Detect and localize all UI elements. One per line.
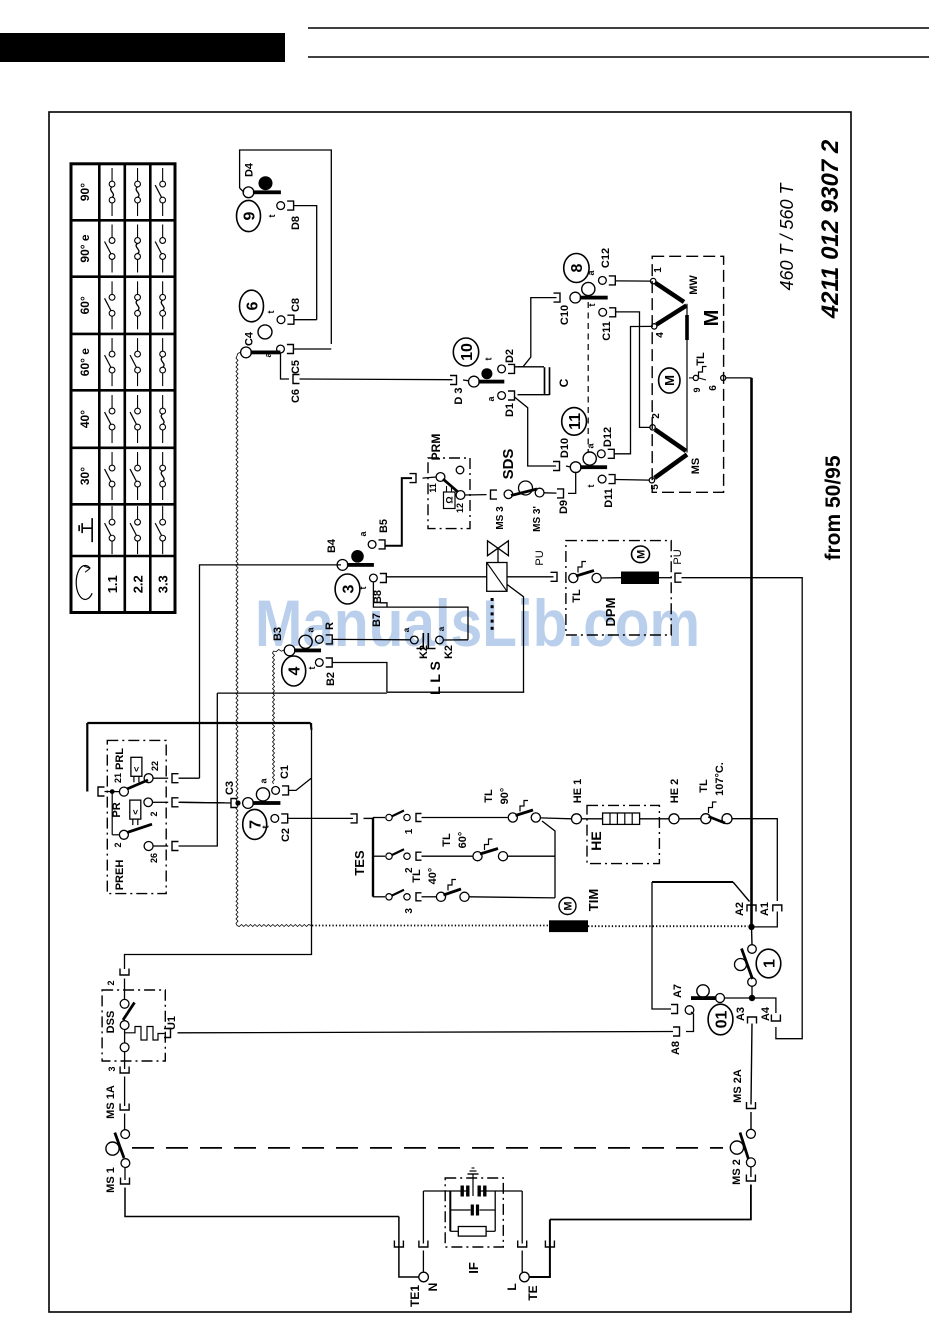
svg-text:TE1: TE1 bbox=[408, 1285, 422, 1307]
svg-text:60°: 60° bbox=[457, 832, 469, 849]
svg-text:D 3: D 3 bbox=[453, 387, 465, 404]
svg-text:C10: C10 bbox=[559, 305, 571, 325]
svg-text:MS 1: MS 1 bbox=[105, 1167, 117, 1193]
svg-text:MS 2: MS 2 bbox=[731, 1159, 743, 1185]
svg-text:PRL: PRL bbox=[114, 748, 126, 770]
cam linkage zigzag vertical B3 to C1 bbox=[273, 651, 275, 784]
svg-text:L L S: L L S bbox=[427, 661, 443, 695]
svg-text:C12: C12 bbox=[600, 248, 612, 268]
pin bracket D9 bbox=[557, 489, 564, 498]
switch 1 on rail bbox=[748, 945, 757, 954]
pin bracket C6 bbox=[293, 375, 300, 384]
timer linkage dotted right bbox=[588, 925, 748, 927]
pin bracket MS1A top bbox=[120, 1067, 129, 1074]
cam contact C4 (cam 6) bbox=[241, 347, 252, 358]
svg-text:Ω: Ω bbox=[445, 496, 455, 503]
TES switch 1 bbox=[373, 817, 385, 819]
pin C2 bbox=[271, 815, 279, 823]
wire PRL 22 out bbox=[153, 777, 168, 779]
svg-text:TL: TL bbox=[411, 869, 423, 883]
pin bracket A3 bbox=[748, 1017, 757, 1024]
pin bracket C3 bbox=[231, 799, 238, 808]
svg-text:U1: U1 bbox=[166, 1016, 178, 1030]
wire TES1 to TL90 bbox=[422, 817, 508, 819]
junction dot C3 node bbox=[235, 800, 240, 805]
wire PR node down bbox=[111, 792, 113, 835]
svg-text:C5: C5 bbox=[290, 360, 302, 374]
main phase rail thick bbox=[750, 378, 753, 927]
TL 60 switch bbox=[473, 852, 482, 861]
svg-text:M: M bbox=[701, 310, 723, 327]
junction dot A3 node bbox=[749, 995, 755, 1001]
svg-text:MS 2A: MS 2A bbox=[732, 1069, 744, 1103]
IF earth symbol bbox=[472, 1174, 474, 1187]
pin bracket L bbox=[518, 1241, 527, 1248]
wire A8 to A7 mate bbox=[686, 1012, 694, 1032]
svg-text:B7: B7 bbox=[371, 613, 383, 627]
motor TL klixon bbox=[693, 375, 698, 380]
svg-text:A3: A3 bbox=[735, 1007, 747, 1021]
cam number 3 bbox=[335, 574, 360, 604]
svg-text:6: 6 bbox=[244, 301, 261, 310]
svg-text:MS 1A: MS 1A bbox=[105, 1085, 117, 1119]
pin bracket A4 bbox=[771, 1015, 780, 1022]
svg-text:C8: C8 bbox=[290, 298, 302, 312]
cam number 6 bbox=[240, 290, 264, 322]
wire C5 down to C6 bbox=[281, 353, 290, 379]
svg-text:C6: C6 bbox=[290, 389, 302, 403]
DSS to MS1A wire bbox=[124, 1052, 126, 1069]
valve wire through bbox=[507, 576, 554, 578]
wire 26 up to B2 line bbox=[179, 693, 218, 846]
wire HE2 to TL107 bbox=[679, 818, 701, 820]
svg-text:PRM: PRM bbox=[429, 434, 443, 461]
svg-text:t: t bbox=[267, 215, 277, 218]
TL 107 switch bbox=[701, 814, 711, 824]
MW terminal 1 bbox=[651, 278, 656, 283]
cam number 11 bbox=[562, 408, 587, 436]
pin D11 bbox=[598, 475, 606, 483]
TL90 bypass down bbox=[542, 821, 555, 898]
wire K2 right to riser bbox=[443, 639, 468, 641]
cam linkage zigzag C4 to timer bbox=[237, 352, 240, 356]
pin B8 bbox=[370, 574, 378, 582]
svg-text:C4: C4 bbox=[244, 331, 256, 346]
pin bracket TES in bbox=[351, 814, 358, 823]
terminal L circle bbox=[520, 1272, 530, 1282]
svg-text:A7: A7 bbox=[672, 984, 684, 998]
TIM coil bbox=[549, 920, 588, 932]
svg-text:D8: D8 bbox=[290, 216, 302, 230]
L wire down from IF bbox=[521, 1191, 523, 1244]
wire D10 to D9 bbox=[568, 472, 576, 494]
wire HE2 side loop bbox=[652, 881, 733, 883]
cam contact C3 (cam 7) bbox=[243, 798, 254, 809]
svg-text:MW: MW bbox=[688, 275, 700, 295]
svg-text:B5: B5 bbox=[378, 519, 390, 533]
svg-text:t: t bbox=[266, 311, 276, 314]
svg-text:40°: 40° bbox=[78, 410, 92, 428]
MS2A wire and circle bbox=[750, 1112, 752, 1129]
svg-text:TIM: TIM bbox=[586, 889, 601, 911]
K2 left terminal bbox=[410, 636, 418, 644]
pin bracket 22 bbox=[172, 774, 179, 783]
svg-text:8: 8 bbox=[569, 263, 586, 272]
svg-text:4: 4 bbox=[655, 332, 666, 338]
wire HE to HE2 bbox=[640, 818, 669, 820]
MS winding arm lower bbox=[655, 455, 688, 479]
table switch symbols bbox=[111, 168, 113, 181]
pin D8 bbox=[277, 202, 285, 210]
svg-text:90°: 90° bbox=[78, 183, 92, 201]
PRM box bbox=[428, 458, 470, 529]
MS terminal 2 bbox=[650, 425, 655, 430]
svg-text:L: L bbox=[505, 1283, 519, 1290]
svg-text:30°: 30° bbox=[78, 467, 92, 485]
K2 right terminal bbox=[436, 636, 444, 644]
svg-text:HE 2: HE 2 bbox=[669, 779, 681, 803]
PR PRL PREH box bbox=[107, 740, 166, 893]
pin D1 bbox=[498, 392, 506, 400]
svg-text:2: 2 bbox=[113, 842, 123, 847]
svg-text:MS: MS bbox=[690, 458, 702, 475]
svg-text:2.2: 2.2 bbox=[131, 575, 146, 593]
cam contact B4 (cam 3) bbox=[337, 560, 348, 571]
svg-text:IF: IF bbox=[466, 1262, 481, 1274]
cam number 01 bbox=[708, 1004, 733, 1035]
svg-text:C1: C1 bbox=[279, 765, 291, 779]
wire A8 to U1 bbox=[178, 1032, 674, 1033]
DSS switch bbox=[124, 979, 126, 1000]
pin bracket DSS 2 bbox=[120, 969, 129, 976]
table tap icon bbox=[79, 518, 92, 542]
svg-text:a: a bbox=[402, 627, 411, 632]
MS2 blade bbox=[740, 1133, 748, 1159]
cam contact B3 (cam 4) bbox=[284, 645, 295, 656]
pin bracket U1 bbox=[164, 1029, 171, 1038]
pin bracket A8 bbox=[673, 1027, 680, 1036]
svg-text:PU: PU bbox=[672, 549, 684, 564]
wire top loop D4-C5 bbox=[240, 150, 332, 344]
wire C1 diagonal to rail bbox=[289, 778, 312, 790]
svg-text:460 T / 560 T: 460 T / 560 T bbox=[777, 181, 797, 290]
wire C12 to MW1 bbox=[615, 280, 650, 282]
svg-text:TL: TL bbox=[698, 779, 710, 793]
pin D12 bbox=[597, 450, 605, 458]
pin bracket C10 bbox=[554, 293, 561, 302]
MW winding arm bbox=[656, 283, 685, 302]
DPM motor M circle bbox=[632, 546, 650, 563]
terminal TE1/N circle bbox=[419, 1272, 429, 1282]
pin bracket PRM 11 bbox=[410, 474, 417, 483]
svg-text:C2: C2 bbox=[280, 828, 292, 842]
pin R bbox=[315, 636, 323, 644]
IF box bbox=[445, 1178, 503, 1247]
svg-text:TL: TL bbox=[571, 589, 583, 603]
motor box bbox=[652, 256, 723, 492]
junction dot A2 node bbox=[748, 924, 754, 930]
svg-text:TE: TE bbox=[526, 1285, 540, 1300]
svg-text:a: a bbox=[437, 626, 446, 631]
svg-text:A8: A8 bbox=[670, 1041, 682, 1055]
svg-text:HE: HE bbox=[588, 831, 604, 850]
svg-text:ManualsLib.com: ManualsLib.com bbox=[255, 586, 700, 660]
svg-text:3.3: 3.3 bbox=[156, 575, 171, 593]
MS2 lower circle bbox=[746, 1158, 755, 1167]
pin bracket N rail bbox=[394, 1241, 403, 1248]
svg-text:10: 10 bbox=[459, 343, 476, 361]
wire B8 down to B7 line bbox=[373, 583, 468, 640]
dashed phase boundary line bbox=[132, 1147, 723, 1149]
cam number 9 bbox=[237, 200, 261, 231]
SDS hex cam bbox=[519, 481, 533, 495]
header rule line 2 bbox=[308, 56, 929, 58]
PREH switch bbox=[119, 830, 128, 839]
wire 12 to SDS bbox=[465, 494, 487, 496]
timer linkage dotted left bbox=[237, 925, 311, 927]
PRM idle contact bbox=[456, 466, 464, 474]
pin C8 bbox=[277, 316, 285, 324]
svg-text:01: 01 bbox=[713, 1011, 730, 1029]
valve coil box bbox=[487, 563, 507, 592]
svg-text:11: 11 bbox=[567, 413, 584, 430]
cam number 1 bbox=[756, 949, 781, 978]
svg-text:1: 1 bbox=[653, 267, 664, 273]
svg-text:t: t bbox=[307, 667, 317, 670]
pin bracket MS1A bottom bbox=[120, 1104, 129, 1111]
pin bracket A2 bbox=[747, 905, 756, 912]
svg-text:PR: PR bbox=[111, 802, 123, 817]
wire C6 to D3 bbox=[300, 378, 453, 381]
pin bracket MS2A bbox=[747, 1102, 756, 1109]
svg-text:3: 3 bbox=[404, 908, 415, 914]
svg-text:A4: A4 bbox=[760, 1006, 772, 1021]
svg-text:D4: D4 bbox=[244, 162, 256, 177]
HE2 terminal bbox=[669, 814, 679, 824]
rotor winding bar bbox=[685, 315, 689, 340]
rail C-row down to DSS feed bbox=[125, 723, 312, 969]
wire B2 to valve return bbox=[332, 663, 387, 693]
TIM motor circle bbox=[559, 898, 576, 915]
svg-text:K2: K2 bbox=[443, 645, 455, 659]
wire TES2 to TL60 bbox=[422, 855, 474, 857]
wire R to K2 bbox=[332, 638, 410, 640]
valve linkage dots bbox=[491, 598, 494, 601]
svg-text:t: t bbox=[484, 358, 494, 361]
rotor common wire bbox=[686, 304, 688, 453]
svg-text:4: 4 bbox=[286, 666, 303, 675]
pin bracket A1 bbox=[773, 905, 782, 912]
MS1 lower circle bbox=[121, 1159, 130, 1168]
IF inner verticals bbox=[449, 1191, 451, 1231]
cam number 8 bbox=[564, 254, 589, 283]
wire TL90 to HE1 bbox=[540, 817, 571, 820]
wire MS1A bbox=[124, 1077, 126, 1107]
header rule line 1 bbox=[308, 27, 929, 29]
pin bracket D3 bbox=[450, 376, 457, 385]
pin bracket D9wire-D10 bbox=[553, 462, 560, 471]
cam number 7 bbox=[243, 809, 267, 839]
svg-text:26: 26 bbox=[149, 853, 159, 863]
svg-text:D9: D9 bbox=[558, 500, 570, 514]
svg-text:90°: 90° bbox=[499, 788, 511, 805]
wire A1 down to dot bbox=[754, 912, 777, 927]
DPM winding bbox=[601, 577, 621, 579]
svg-text:D1: D1 bbox=[504, 403, 516, 417]
wire TL40 out bbox=[469, 897, 555, 898]
pin bracket L rail bbox=[545, 1241, 554, 1248]
svg-text:MS 3: MS 3 bbox=[495, 506, 506, 530]
svg-text:DSS: DSS bbox=[105, 1011, 117, 1034]
svg-text:M: M bbox=[636, 550, 648, 559]
cam contact D10 (cam 11) bbox=[566, 466, 571, 467]
pin C5 bbox=[277, 345, 285, 353]
svg-text:D2: D2 bbox=[504, 349, 516, 363]
MS1A switch circle bbox=[124, 1114, 126, 1130]
pin bracket SDS bbox=[491, 490, 498, 499]
valve return diagonal bbox=[507, 584, 524, 692]
wire B4 rail bbox=[200, 565, 342, 778]
wire DPM out bbox=[659, 577, 672, 579]
svg-text:t: t bbox=[358, 587, 368, 590]
svg-text:12: 12 bbox=[455, 503, 465, 513]
svg-text:11: 11 bbox=[428, 483, 438, 493]
HE1 terminal bbox=[572, 814, 582, 824]
wire D12 to MW4 bbox=[614, 326, 652, 453]
DPM box bbox=[566, 541, 671, 635]
dashed cam linkage 8-11 bbox=[587, 302, 589, 453]
pin bracket PR 21 bbox=[98, 787, 105, 796]
bottom rail to N bbox=[399, 1217, 419, 1278]
pin bracket N bbox=[419, 1241, 428, 1248]
TES common bar bbox=[364, 817, 374, 819]
svg-text:PU: PU bbox=[534, 550, 546, 565]
svg-text:A2: A2 bbox=[734, 902, 746, 916]
PR mid contact to C3 bbox=[144, 798, 153, 807]
IF series capacitors bbox=[461, 1186, 464, 1197]
wire C5 to top loop bbox=[293, 348, 331, 350]
wire MS1 to bottom rail bbox=[124, 1168, 126, 1181]
svg-text:90° e: 90° e bbox=[78, 234, 92, 262]
wire C11 to MS2 terminal bbox=[616, 312, 650, 428]
rail to switch 1 bbox=[751, 927, 754, 945]
capacitor C bbox=[544, 367, 546, 395]
svg-text:5: 5 bbox=[650, 484, 661, 490]
wire to PR 21 bbox=[86, 723, 88, 792]
PRM contact 11-12 bbox=[423, 477, 437, 478]
svg-text:<: < bbox=[130, 809, 140, 814]
svg-text:3: 3 bbox=[340, 584, 357, 593]
svg-text:TL: TL bbox=[483, 789, 495, 803]
IF feed line bbox=[423, 1190, 469, 1192]
wire TL6 to main rail bbox=[726, 377, 752, 379]
cam contact D3 (cam 10) bbox=[463, 379, 469, 382]
svg-text:HE 1: HE 1 bbox=[572, 779, 584, 803]
pin bracket MS2 bottom bbox=[746, 1175, 755, 1182]
PRM ohm box bbox=[444, 492, 456, 509]
svg-text:2: 2 bbox=[651, 413, 662, 419]
wire D2 to C10 bbox=[515, 298, 557, 367]
A7 mate circle bbox=[685, 1006, 694, 1015]
IF middle capacitor bbox=[450, 1209, 470, 1211]
svg-text:M: M bbox=[662, 375, 677, 386]
capacitor C wire top bbox=[518, 366, 545, 368]
pin bracket 26 bbox=[172, 842, 179, 851]
pin C1 bbox=[272, 787, 280, 795]
MW winding arm lower bbox=[657, 306, 687, 325]
DSS box bbox=[102, 990, 165, 1061]
svg-text:C: C bbox=[557, 378, 571, 387]
svg-text:3: 3 bbox=[107, 1066, 117, 1071]
svg-text:2: 2 bbox=[149, 811, 159, 816]
cam number 4 bbox=[282, 656, 306, 686]
svg-text:PREH: PREH bbox=[114, 860, 126, 891]
svg-text:C11: C11 bbox=[601, 321, 613, 341]
DSS heater meander bbox=[125, 1027, 165, 1041]
svg-text:1.1: 1.1 bbox=[105, 575, 120, 593]
svg-text:22: 22 bbox=[150, 761, 160, 771]
wire B5 to PRM bbox=[385, 478, 412, 546]
motor rotor M circle bbox=[659, 368, 680, 393]
pin bracket B7 bbox=[380, 603, 387, 607]
MS1 hex cam bbox=[106, 1142, 119, 1155]
svg-text:1: 1 bbox=[404, 828, 415, 834]
MS winding arm bbox=[655, 430, 686, 452]
svg-text:t: t bbox=[261, 826, 271, 829]
PRL switch bbox=[119, 787, 128, 796]
pin bracket MS1 bottom bbox=[121, 1178, 130, 1185]
TL switch in DPM bbox=[569, 573, 578, 582]
PRL pressure bellows bbox=[131, 757, 142, 776]
svg-text:D10: D10 bbox=[559, 438, 571, 458]
wire TES3 to TL40 bbox=[422, 896, 437, 898]
cam contact C10 (cam 8) bbox=[570, 292, 581, 303]
HE resistor bbox=[582, 818, 603, 820]
L wire to right rail bbox=[529, 1220, 550, 1278]
N wire up to IF bbox=[422, 1251, 424, 1273]
svg-text:107°C.: 107°C. bbox=[714, 762, 726, 796]
junction dot PR node bbox=[110, 789, 115, 794]
wire C3 from PR bbox=[180, 801, 225, 804]
svg-text:21: 21 bbox=[113, 773, 123, 783]
svg-text:4211 012 9307 2: 4211 012 9307 2 bbox=[817, 139, 844, 319]
wire D11 to MS5 bbox=[615, 479, 649, 482]
MS terminal 5 bbox=[649, 478, 654, 483]
svg-text:TL: TL bbox=[441, 833, 453, 847]
svg-text:B2: B2 bbox=[325, 672, 337, 686]
TL 40 switch bbox=[436, 892, 445, 901]
svg-text:M: M bbox=[563, 901, 575, 910]
pin bracket 2 bbox=[172, 798, 179, 807]
wire TL107 to A1 bbox=[732, 819, 777, 901]
outer frame border bbox=[49, 112, 851, 1312]
cam number 10 bbox=[453, 338, 478, 366]
wire to A4 bbox=[752, 998, 776, 1013]
pin bracket PU left bbox=[551, 572, 558, 581]
svg-text:B4: B4 bbox=[326, 538, 338, 553]
wire D8 to C8 bbox=[294, 206, 317, 320]
wire A7 to HE2 loop bbox=[652, 882, 671, 1009]
table rotate-arrow icon bbox=[76, 565, 92, 599]
PREH 26 contact bbox=[144, 842, 153, 851]
svg-text:D12: D12 bbox=[602, 427, 614, 447]
pin bracket PU right bbox=[675, 573, 682, 582]
svg-text:DPM: DPM bbox=[603, 598, 618, 627]
svg-text:SDS: SDS bbox=[500, 449, 517, 480]
svg-text:1: 1 bbox=[761, 959, 778, 968]
svg-text:60° e: 60° e bbox=[78, 348, 92, 376]
pin C11 bbox=[599, 308, 607, 316]
